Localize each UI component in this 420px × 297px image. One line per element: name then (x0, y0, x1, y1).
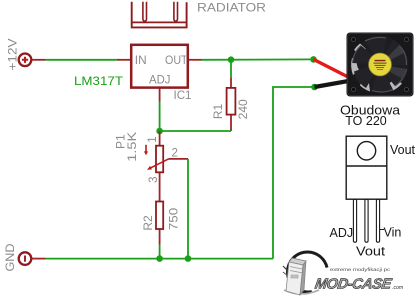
svg-text:Vout: Vout (356, 245, 386, 259)
junction ADJ/R1/P1 (156, 128, 163, 135)
svg-text:ADJ: ADJ (149, 73, 171, 87)
TO-220 package drawing (346, 136, 387, 242)
junction R2/GND (156, 255, 163, 262)
wire GND rail (46, 258, 273, 260)
svg-text:MOD-CASE: MOD-CASE (314, 276, 394, 292)
svg-text:ADJ: ADJ (330, 226, 354, 240)
svg-text:1.5K: 1.5K (125, 132, 139, 162)
svg-text:TO 220: TO 220 (345, 114, 387, 128)
svg-text:extreme modyfikacji pc: extreme modyfikacji pc (330, 267, 391, 273)
terminal +12V (19, 54, 46, 67)
svg-text:LM317T: LM317T (74, 74, 124, 88)
wire R1 top (230, 60, 232, 78)
svg-text:OUT: OUT (165, 53, 188, 67)
svg-text:R1: R1 (211, 104, 225, 120)
svg-text:240: 240 (236, 99, 250, 119)
svg-text:3: 3 (148, 176, 160, 182)
wire R2 to GND rail (159, 245, 161, 259)
potentiometer P1 (144, 131, 188, 188)
svg-text:Vin: Vin (384, 225, 402, 239)
svg-text:.com: .com (392, 285, 404, 291)
svg-text:RADIATOR: RADIATOR (197, 1, 266, 15)
svg-text:IN: IN (135, 53, 147, 67)
resistor R1 240 (227, 77, 236, 131)
svg-text:Vout: Vout (390, 143, 416, 157)
svg-text:GND: GND (3, 243, 17, 271)
svg-text:750: 750 (167, 207, 181, 230)
radiator heatsink symbol (132, 2, 187, 28)
wire OUT rail (202, 58, 314, 60)
svg-text:+12V: +12V (6, 39, 20, 71)
junction fan red lead (310, 56, 317, 63)
terminal GND (19, 252, 46, 265)
resistor R2 750 (156, 188, 163, 245)
wire +12V to IC1 IN (46, 59, 117, 61)
svg-text:R2: R2 (141, 215, 155, 231)
wire fan return (273, 87, 315, 259)
svg-text:IC1: IC1 (174, 88, 192, 102)
wire pot pin2 to GND rail (187, 159, 189, 259)
mod-case logo (283, 252, 404, 295)
fan photo (347, 33, 414, 97)
junction fan black lead (311, 84, 318, 91)
svg-text:1: 1 (147, 136, 159, 142)
junction OUT/R1 (228, 56, 235, 63)
fan red lead wire (314, 59, 354, 79)
fan black lead wire (315, 80, 356, 87)
junction pot pin2/GND (185, 255, 192, 262)
regulator IC1 LM317 (117, 45, 202, 102)
svg-text:2: 2 (172, 148, 178, 160)
wire ADJ node (160, 102, 231, 132)
